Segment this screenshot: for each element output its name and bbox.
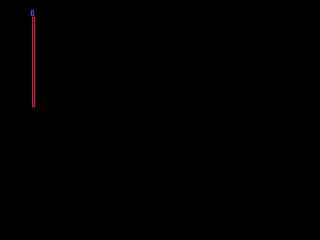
red block (tall hollow rectangle below) xyxy=(33,18,35,107)
purple block (small hollow rectangle on top) xyxy=(32,11,34,16)
black canvas xyxy=(0,0,200,141)
